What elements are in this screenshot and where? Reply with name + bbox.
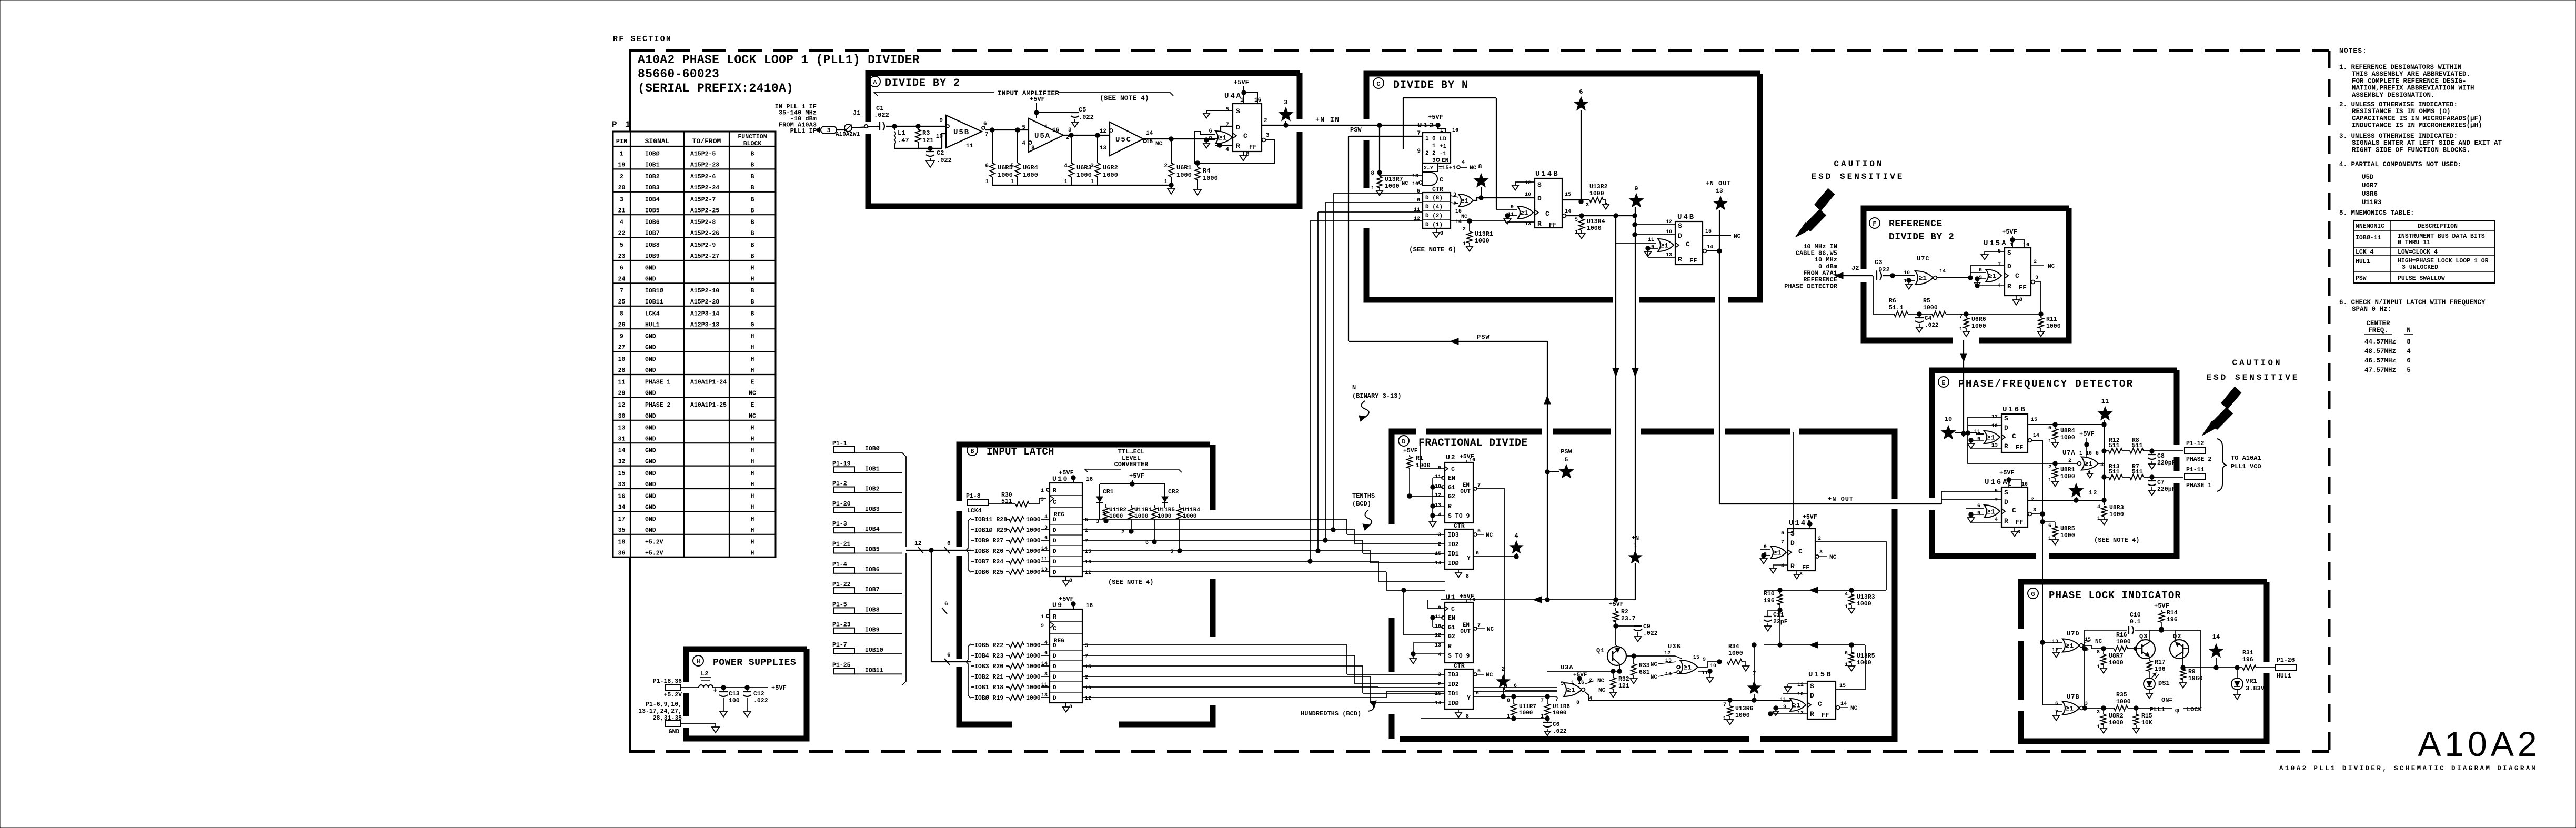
svg-text:+: + <box>713 686 717 694</box>
U4A feedback wire <box>1194 132 1275 163</box>
svg-text:7: 7 <box>620 288 623 295</box>
svg-text:6: 6 <box>1209 128 1212 135</box>
svg-text:2: 2 <box>1164 163 1168 169</box>
svg-text:A15P2-7: A15P2-7 <box>690 196 716 203</box>
svg-text:7: 7 <box>1477 623 1481 629</box>
svg-text:C: C <box>1545 210 1549 218</box>
svg-text:Q1: Q1 <box>1596 647 1605 654</box>
wire U14B14 branch down <box>1615 216 1616 600</box>
svg-text:S: S <box>1810 682 1814 690</box>
svg-text:3: 3 <box>1266 133 1270 139</box>
U3A input 6 wire <box>1505 690 1557 691</box>
svg-text:1: 1 <box>1425 136 1429 142</box>
wire N line to U1 C <box>1441 599 1547 600</box>
svg-text:R: R <box>1053 487 1057 494</box>
svg-text:R: R <box>1448 643 1452 650</box>
svg-text:PLL1 VCO: PLL1 VCO <box>2231 463 2261 470</box>
svg-text:HUL1: HUL1 <box>2356 258 2370 265</box>
svg-text:3: 3 <box>1096 519 1099 525</box>
svg-text:1000: 1000 <box>1385 183 1400 190</box>
svg-text:H: H <box>751 436 754 442</box>
svg-text:NC: NC <box>1486 672 1493 679</box>
wire U12 top loop <box>1403 97 1496 98</box>
svg-text:B: B <box>751 162 754 169</box>
svg-text:GND: GND <box>645 516 656 523</box>
svg-text:+1: +1 <box>1440 144 1447 150</box>
svg-text:1: 1 <box>2097 664 2100 670</box>
svg-text:1000: 1000 <box>2109 511 2124 518</box>
svg-text:U15B: U15B <box>1808 671 1833 679</box>
U4A S input stub <box>1206 110 1233 111</box>
svg-text:NC: NC <box>749 413 756 420</box>
svg-text:16: 16 <box>1052 127 1059 134</box>
svg-text:12: 12 <box>1525 180 1531 186</box>
svg-text:U8R7: U8R7 <box>2109 653 2124 660</box>
svg-text:U13R6: U13R6 <box>1735 705 1754 712</box>
svg-text:D: D <box>2004 424 2008 432</box>
U14A R input <box>1773 564 1788 566</box>
svg-text:8: 8 <box>1069 578 1072 584</box>
svg-text:C12: C12 <box>753 691 764 698</box>
wire +N IN <box>1284 123 1288 127</box>
svg-text:IOB3: IOB3 <box>645 185 660 191</box>
lock detector loop <box>2084 630 2085 708</box>
bus 12 wide <box>906 550 959 551</box>
svg-text:C: C <box>1053 499 1056 506</box>
svg-text:+5.2V: +5.2V <box>645 550 663 557</box>
svg-text:DIVIDE BY N: DIVIDE BY N <box>1393 79 1468 92</box>
svg-text:R: R <box>2007 282 2011 290</box>
svg-text:1000: 1000 <box>998 171 1013 179</box>
svg-text:2: 2 <box>1818 536 1821 542</box>
svg-text:HUL1: HUL1 <box>645 321 660 328</box>
U12 ground <box>1436 228 1437 233</box>
svg-text:32: 32 <box>618 459 626 466</box>
svg-text:R1: R1 <box>1416 455 1423 462</box>
svg-text:9: 9 <box>1783 704 1786 710</box>
svg-text:2: 2 <box>1501 665 1505 673</box>
svg-text:1000: 1000 <box>1023 171 1038 179</box>
svg-text:S: S <box>1537 181 1542 189</box>
svg-text:196: 196 <box>2242 657 2253 663</box>
svg-text:14: 14 <box>1146 130 1153 137</box>
svg-text:1000: 1000 <box>1026 517 1041 523</box>
svg-text:4: 4 <box>1022 140 1025 147</box>
svg-text:29: 29 <box>618 390 626 397</box>
svg-text:1: 1 <box>1371 186 1374 191</box>
svg-text:G2: G2 <box>1448 493 1455 500</box>
svg-text:1000: 1000 <box>1026 642 1041 649</box>
svg-text:3: 3 <box>620 196 623 203</box>
U15B clock OR gate <box>1790 699 1806 711</box>
svg-text:6: 6 <box>1145 540 1149 546</box>
svg-text:2: 2 <box>1432 150 1436 157</box>
svg-text:B: B <box>751 310 754 317</box>
svg-text:121: 121 <box>922 137 934 144</box>
resistor R4 <box>1197 163 1198 167</box>
svg-text:+5VF: +5VF <box>1059 469 1074 477</box>
svg-text:1: 1 <box>1090 179 1094 185</box>
svg-text:≥1: ≥1 <box>2085 460 2093 468</box>
svg-text:1000: 1000 <box>1857 660 1871 667</box>
svg-text:≥1: ≥1 <box>1987 508 1995 516</box>
svg-text:5: 5 <box>1477 529 1481 534</box>
svg-text:D: D <box>1053 559 1056 566</box>
svg-text:S: S <box>2004 415 2008 422</box>
svg-text:U14B: U14B <box>1535 170 1559 178</box>
svg-text:IOB11 R28: IOB11 R28 <box>974 517 1007 523</box>
svg-text:Ø THRU 11: Ø THRU 11 <box>2398 239 2430 246</box>
svg-text:NC: NC <box>1651 662 1658 668</box>
svg-text:RIGHT SIDE OF FUNCTION BLOCKS.: RIGHT SIDE OF FUNCTION BLOCKS. <box>2352 146 2470 154</box>
svg-text:8: 8 <box>1576 700 1579 706</box>
svg-text:TO/FROM: TO/FROM <box>692 137 721 145</box>
svg-text:1000: 1000 <box>1587 225 1602 232</box>
svg-text:DIVIDE BY 2: DIVIDE BY 2 <box>1889 232 1954 243</box>
svg-text:FREQ.: FREQ. <box>2368 327 2388 334</box>
svg-text:1000: 1000 <box>1971 323 1986 330</box>
svg-text:6: 6 <box>947 541 951 547</box>
svg-text:D: D <box>1053 538 1056 544</box>
svg-text:1000: 1000 <box>1176 171 1192 179</box>
svg-text:R35: R35 <box>2116 692 2127 699</box>
svg-text:IOBØ: IOBØ <box>865 446 880 452</box>
svg-text:≥1: ≥1 <box>1461 197 1469 205</box>
wire U4B clock OR input <box>1616 243 1656 244</box>
svg-text:GND: GND <box>645 265 656 272</box>
svg-text:1000: 1000 <box>2116 639 2131 645</box>
svg-text:IOB6: IOB6 <box>645 219 660 226</box>
svg-text:R: R <box>1810 710 1814 718</box>
svg-text:C8: C8 <box>2157 453 2165 460</box>
svg-text:7: 7 <box>1085 539 1088 544</box>
svg-text:11: 11 <box>966 143 973 149</box>
svg-text:6: 6 <box>2048 523 2051 529</box>
svg-text:Q2: Q2 <box>2173 633 2181 640</box>
svg-text:NC: NC <box>1734 234 1741 240</box>
sheet border right dashed <box>2328 51 2331 752</box>
U2 G2 input wire <box>1410 496 1445 497</box>
svg-text:5: 5 <box>1477 669 1481 674</box>
svg-text:IOB9 R27: IOB9 R27 <box>974 538 1003 544</box>
svg-text:10: 10 <box>1991 423 1998 429</box>
svg-text:14: 14 <box>1435 701 1441 706</box>
svg-text:RF SECTION: RF SECTION <box>613 35 672 44</box>
resistor R17 and LED DS1 <box>2149 657 2150 661</box>
svg-text:51.1: 51.1 <box>1889 305 1904 311</box>
function block E frame <box>1932 370 2177 498</box>
svg-text:+5VF: +5VF <box>1403 448 1418 455</box>
svg-text:B: B <box>751 185 754 191</box>
svg-text:P1-11: P1-11 <box>2186 467 2205 473</box>
svg-text:H: H <box>751 493 754 500</box>
svg-text:≥1: ≥1 <box>1987 434 1995 442</box>
svg-text:3.83V: 3.83V <box>2246 685 2265 692</box>
svg-text:IOB6 R25: IOB6 R25 <box>974 569 1003 576</box>
svg-text:CENTER: CENTER <box>2366 320 2390 327</box>
wire star9 down to D block <box>1635 207 1636 551</box>
svg-text:+5VF: +5VF <box>1609 601 1624 608</box>
svg-text:8: 8 <box>2017 530 2020 536</box>
svg-text:A15P2-10: A15P2-10 <box>690 288 719 295</box>
svg-text:C5: C5 <box>1079 106 1086 114</box>
sheet border left lower <box>629 557 631 753</box>
wire U7A in <box>2055 463 2077 464</box>
svg-text:A15P2-9: A15P2-9 <box>690 242 716 249</box>
svg-text:C: C <box>2012 432 2016 440</box>
svg-text:2: 2 <box>1085 675 1088 681</box>
svg-text:S: S <box>2007 249 2011 257</box>
svg-text:3: 3 <box>2035 275 2038 281</box>
svg-text:16: 16 <box>2023 243 2029 248</box>
resistor R15 <box>2136 708 2137 714</box>
svg-text:1: 1 <box>1240 97 1244 104</box>
svg-text:6: 6 <box>2055 701 2058 707</box>
brace to A10A1 <box>2217 439 2227 491</box>
svg-text:16: 16 <box>1086 477 1093 483</box>
svg-text:U5A: U5A <box>1034 132 1051 140</box>
svg-text:U8R3: U8R3 <box>2109 504 2124 511</box>
svg-text:4: 4 <box>2097 504 2100 510</box>
capacitor C2 <box>930 148 931 151</box>
svg-text:15: 15 <box>1705 229 1712 235</box>
svg-text:EN: EN <box>1463 622 1470 629</box>
svg-text:4: 4 <box>620 219 623 226</box>
resistor U6R3 <box>1071 135 1072 163</box>
svg-text:≥1: ≥1 <box>2066 642 2074 650</box>
resistor U6R4 <box>1017 130 1018 163</box>
svg-text:GND: GND <box>645 367 656 374</box>
svg-text:PIN: PIN <box>616 138 628 145</box>
sheet border bottom dashed <box>630 750 2329 753</box>
svg-text:85660-60023: 85660-60023 <box>638 67 719 81</box>
svg-text:HUL1: HUL1 <box>2277 673 2291 680</box>
svg-text:+N: +N <box>1632 534 1639 542</box>
svg-text:DIVIDE BY 2: DIVIDE BY 2 <box>885 77 960 89</box>
block D title <box>1398 436 1409 446</box>
U16A S D inputs <box>1941 491 2001 492</box>
svg-text:U8R5: U8R5 <box>2060 526 2075 532</box>
svg-text:C2: C2 <box>937 149 944 157</box>
svg-text:22pF: 22pF <box>1773 619 1788 625</box>
svg-text:1000: 1000 <box>2109 660 2124 667</box>
svg-text:LCK4: LCK4 <box>645 310 660 317</box>
capacitor C5 <box>1071 112 1079 113</box>
op-amp U5C <box>1110 122 1143 156</box>
svg-text:U6R7: U6R7 <box>2362 182 2378 189</box>
svg-text:H: H <box>751 276 754 283</box>
svg-text:4. PARTIAL COMPONENTS NOT USED: 4. PARTIAL COMPONENTS NOT USED: <box>2339 161 2462 168</box>
svg-text:IOB7: IOB7 <box>645 230 660 237</box>
svg-text:S: S <box>1678 222 1682 230</box>
svg-text:R: R <box>1790 562 1795 570</box>
svg-text:R17: R17 <box>2155 659 2166 666</box>
svg-text:2: 2 <box>1463 227 1466 233</box>
svg-text:P1-12: P1-12 <box>2186 440 2205 447</box>
U15A S stub <box>1985 251 2005 252</box>
resistor R11 <box>2039 312 2043 316</box>
svg-text:D: D <box>1537 195 1542 203</box>
svg-text:0.1: 0.1 <box>2130 619 2141 625</box>
svg-text:2: 2 <box>1425 150 1429 157</box>
svg-text:7: 7 <box>1995 498 1998 503</box>
resistor U6R5 <box>992 130 993 163</box>
svg-text:U8R4: U8R4 <box>2060 428 2075 435</box>
capacitor C12 <box>747 688 748 691</box>
svg-text:1000: 1000 <box>1475 238 1490 245</box>
svg-text:ON=: ON= <box>2161 696 2173 704</box>
resistor U8R5 <box>2040 520 2045 524</box>
svg-text:A15P2-26: A15P2-26 <box>690 230 719 237</box>
svg-text:1: 1 <box>1959 327 1963 332</box>
svg-text:16: 16 <box>2021 482 2028 488</box>
svg-text:13: 13 <box>1100 145 1107 152</box>
latch U9 ground <box>1065 703 1066 707</box>
svg-text:12: 12 <box>914 541 921 547</box>
svg-text:≥1: ≥1 <box>1661 242 1669 250</box>
svg-text:E: E <box>751 379 754 386</box>
svg-text:U3A: U3A <box>1561 664 1574 671</box>
svg-text:R9: R9 <box>2188 669 2196 675</box>
svg-text:+5VF: +5VF <box>2079 430 2095 438</box>
svg-text:10: 10 <box>1666 229 1672 235</box>
svg-text:S: S <box>1790 530 1795 538</box>
svg-text:IOB8: IOB8 <box>865 607 880 613</box>
svg-text:3: 3 <box>827 128 831 134</box>
U1 G2 input wire <box>1404 634 1445 635</box>
svg-text:13: 13 <box>1412 174 1418 179</box>
svg-text:7: 7 <box>1998 262 2001 268</box>
svg-text:1000: 1000 <box>1026 559 1041 566</box>
svg-text:12: 12 <box>618 402 626 409</box>
svg-text:C: C <box>1451 606 1455 613</box>
svg-text:H: H <box>751 334 754 340</box>
wire L1/R3 bottom to U5B pin10 <box>894 148 930 149</box>
svg-text:R: R <box>1236 142 1240 150</box>
svg-text:(BINARY 3-13): (BINARY 3-13) <box>1352 392 1402 400</box>
wire U12 pin13 from U13R7 <box>1380 175 1412 176</box>
bus latch U9 outputs to divider <box>1213 644 1347 645</box>
U16B clock OR gate <box>1984 431 2000 443</box>
svg-text:196: 196 <box>2155 666 2166 673</box>
svg-text:4: 4 <box>1781 563 1784 569</box>
svg-text:IOB2 R21: IOB2 R21 <box>974 674 1003 681</box>
svg-text:A15P2-27: A15P2-27 <box>690 253 719 260</box>
svg-text:U13R7: U13R7 <box>1385 176 1403 183</box>
svg-text:3: 3 <box>2097 710 2100 715</box>
svg-text:J1: J1 <box>853 109 860 117</box>
svg-text:TENTHS: TENTHS <box>1352 492 1375 500</box>
svg-text:10: 10 <box>618 356 626 363</box>
svg-text:5: 5 <box>2096 451 2099 457</box>
svg-text:1000: 1000 <box>1103 171 1118 179</box>
svg-text:8: 8 <box>2407 338 2411 346</box>
svg-text:DESCRIPTION: DESCRIPTION <box>2418 223 2458 230</box>
svg-text:C13: C13 <box>729 691 740 698</box>
svg-text:13: 13 <box>618 425 626 431</box>
svg-text:H: H <box>751 345 754 351</box>
op-amp U5B <box>946 115 982 148</box>
svg-text:6: 6 <box>1476 691 1479 696</box>
svg-text:IOB1: IOB1 <box>645 162 660 169</box>
svg-text:C3: C3 <box>1875 259 1882 266</box>
wire to U4B S D <box>1635 224 1675 225</box>
svg-text:REFERENCE: REFERENCE <box>1889 219 1943 229</box>
svg-text:IDØ: IDØ <box>1448 560 1459 567</box>
svg-text:C10: C10 <box>2130 612 2141 619</box>
svg-text:INDUCTANCE IS IN MICROHENRIES(: INDUCTANCE IS IN MICROHENRIES(μH) <box>2352 122 2482 129</box>
svg-text:26: 26 <box>618 321 626 328</box>
svg-text:R: R <box>1448 503 1452 510</box>
svg-text:C: C <box>1798 548 1803 556</box>
svg-text:C11: C11 <box>1773 612 1784 619</box>
svg-text:7: 7 <box>1477 483 1481 489</box>
connector GND <box>666 721 680 726</box>
svg-text:PHASE 1: PHASE 1 <box>645 379 670 386</box>
wire star11 vertical <box>2104 425 2105 451</box>
svg-text:14: 14 <box>1707 245 1713 250</box>
svg-text:1: 1 <box>1010 179 1014 185</box>
resistor U11R1 <box>1129 508 1134 519</box>
svg-text:(SEE NOTE 4): (SEE NOTE 4) <box>2094 537 2139 544</box>
svg-text:(SEE NOTE 6): (SEE NOTE 6) <box>1409 246 1456 254</box>
svg-text:1000: 1000 <box>1026 548 1041 555</box>
svg-text:A10A2W1: A10A2W1 <box>836 132 860 138</box>
svg-text:9: 9 <box>1041 623 1044 629</box>
U15B S input stub <box>1788 683 1807 684</box>
svg-text:L2: L2 <box>701 670 708 678</box>
svg-text:B: B <box>751 207 754 214</box>
svg-text:+5VF: +5VF <box>2154 602 2169 610</box>
svg-text:1000: 1000 <box>1026 653 1041 660</box>
svg-text:30: 30 <box>618 413 626 420</box>
svg-text:SIGNALS ENTER AT LEFT SIDE AND: SIGNALS ENTER AT LEFT SIDE AND EXIT AT <box>2352 139 2502 147</box>
svg-text:N: N <box>2407 327 2411 334</box>
U12 AND gate C <box>1423 173 1437 185</box>
svg-text:H: H <box>751 539 754 546</box>
svg-text:4: 4 <box>1845 592 1848 598</box>
svg-text:P 1: P 1 <box>612 120 632 129</box>
wire +N to counters <box>1547 599 1635 600</box>
svg-text:3: 3 <box>2033 508 2036 513</box>
svg-text:12: 12 <box>1435 633 1441 639</box>
svg-text:3: 3 <box>2085 701 2088 707</box>
resistor R33 <box>1632 654 1636 658</box>
svg-text:5: 5 <box>1781 531 1784 537</box>
svg-text:D: D <box>1053 643 1056 649</box>
svg-text:IOB7 R24: IOB7 R24 <box>974 559 1003 566</box>
svg-text:IOB1 R18: IOB1 R18 <box>974 684 1003 691</box>
svg-text:6: 6 <box>1845 651 1848 657</box>
function block C DIVIDE BY N frame <box>1366 74 1760 119</box>
svg-text:IOB1Ø R29: IOB1Ø R29 <box>974 527 1007 534</box>
svg-text:2: 2 <box>620 174 623 180</box>
svg-text:220pF: 220pF <box>2157 460 2176 467</box>
svg-text:10: 10 <box>1797 692 1804 698</box>
svg-text:18: 18 <box>618 539 626 546</box>
svg-text:NC: NC <box>2048 264 2055 270</box>
U16B R input <box>1971 448 2001 449</box>
svg-text:NC: NC <box>1651 674 1658 681</box>
svg-text:3 UNLOCKED: 3 UNLOCKED <box>2402 264 2438 271</box>
svg-text:R3: R3 <box>922 129 930 137</box>
U4B R input <box>1648 257 1675 258</box>
resistor U13R4 <box>1579 214 1584 218</box>
resistor U6R1 <box>1171 139 1172 163</box>
svg-text:NC: NC <box>1155 141 1163 147</box>
svg-text:14: 14 <box>1435 561 1441 567</box>
svg-text:.022: .022 <box>937 157 952 164</box>
